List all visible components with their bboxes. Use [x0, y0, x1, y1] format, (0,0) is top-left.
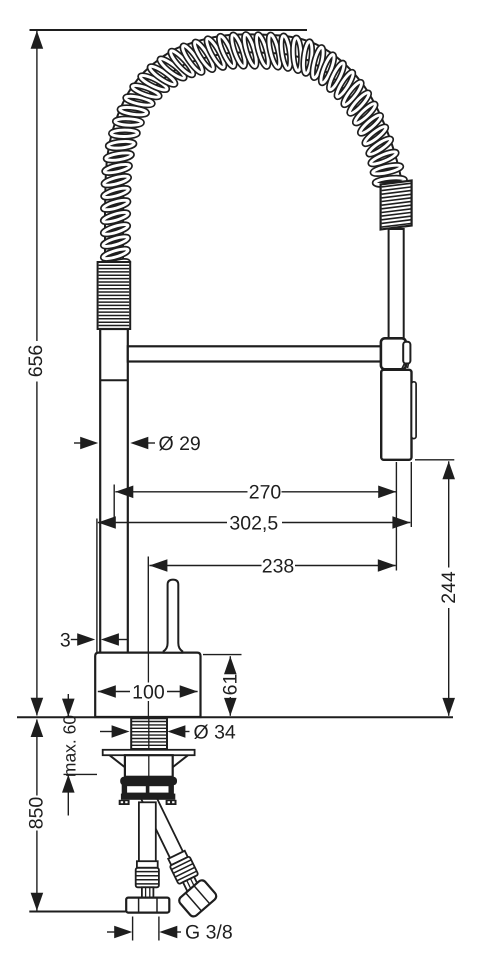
svg-text:Ø 34: Ø 34: [194, 721, 236, 743]
bottom reference line: [29, 911, 125, 913]
dimension 656: [36, 31, 38, 341]
spout support bar: [128, 346, 381, 361]
right dense coil section: [381, 181, 412, 230]
flange braces: [110, 755, 126, 767]
connector neck: [142, 887, 154, 897]
dimension max. 60: [67, 694, 69, 716]
right foot: [166, 800, 177, 805]
seal ring (black): [120, 777, 177, 785]
svg-text:G 3/8: G 3/8: [185, 922, 233, 944]
top reference line (656 upper extent): [30, 29, 308, 31]
flange body: [125, 755, 173, 777]
spray button tab: [412, 382, 417, 439]
svg-text:302,5: 302,5: [229, 512, 278, 534]
spiral spring hose arch: [102, 33, 405, 273]
svg-text:270: 270: [249, 482, 282, 504]
dimension 270: [113, 485, 115, 520]
countertop line: [17, 716, 453, 718]
dimension 61: [203, 654, 242, 656]
left foot: [119, 800, 130, 805]
dimension G 3/8: [132, 917, 134, 941]
svg-text:61: 61: [220, 674, 242, 696]
svg-text:238: 238: [262, 555, 295, 577]
hose sleeve joint line: [100, 379, 128, 381]
dimension Ø 29: [74, 442, 81, 444]
dimension 302,5: [96, 519, 98, 653]
svg-text:244: 244: [438, 571, 460, 604]
threaded shank: [131, 718, 167, 749]
left dense coil section: [98, 262, 131, 329]
svg-text:3: 3: [60, 629, 71, 651]
dimension 100: [98, 685, 116, 698]
base centre line: [147, 654, 149, 683]
clamp window section: [123, 785, 173, 793]
faucet riser pipe: [100, 329, 128, 653]
centre line through shank: [148, 718, 150, 776]
dimension 850: [36, 720, 38, 796]
mounting nut (black): [121, 794, 175, 800]
lever handle: [164, 580, 183, 653]
spray holder block: [381, 338, 406, 369]
extension lines right: [395, 462, 397, 571]
spray hose lower section: [389, 229, 404, 339]
svg-text:656: 656: [25, 345, 47, 378]
svg-text:Ø 29: Ø 29: [159, 433, 201, 455]
svg-text:100: 100: [132, 681, 165, 703]
mixer base body: [95, 653, 200, 717]
braided section: [136, 868, 159, 888]
diagonal supply hose: [130, 787, 222, 921]
flange plate: [103, 750, 195, 755]
crimp collar: [137, 861, 158, 868]
hex nut G 3/8: [126, 898, 169, 913]
holder clip: [403, 342, 410, 364]
dimension 238: [147, 557, 149, 653]
hand spray body: [381, 370, 411, 460]
svg-text:max. 60: max. 60: [59, 715, 79, 778]
vertical supply hose: [139, 802, 156, 861]
dimension Ø 34: [100, 731, 112, 733]
svg-text:850: 850: [26, 797, 48, 830]
dimension 244: [415, 459, 454, 461]
